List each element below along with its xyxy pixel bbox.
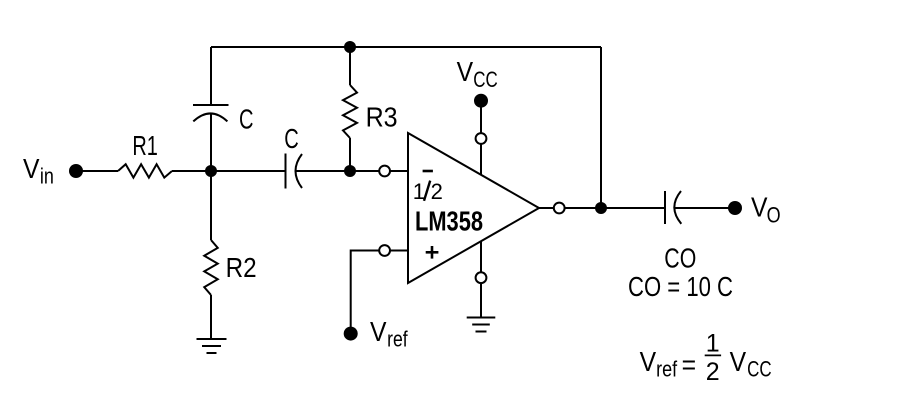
wire C1 to node A [210,114,212,241]
node D output junction dot [595,202,607,214]
wire top rail to R3 [349,47,351,85]
svg-text:C: C [284,123,299,154]
resistor R2 [204,240,218,295]
pin circle ground pin [476,272,487,283]
pin circle inverting input [379,166,390,177]
wire R3 to node B [349,138,351,171]
resistor R1 [118,164,172,177]
wire pin circle left then down to Vref [351,251,380,328]
wire R2 to ground [210,295,212,339]
pin circle output [554,203,565,214]
wire op-amp bottom edge to pin circle [480,241,482,272]
ground symbol below op-amp [467,318,496,332]
node Vref terminal dot [344,327,358,341]
wire feedback right vertical [600,47,602,208]
wire op-amp output to pin circle [539,207,554,209]
node A junction dot [205,165,217,177]
wire C2 to node B junction [296,170,350,172]
pin circle non-inverting input [379,245,390,256]
wire top rail [211,46,601,48]
svg-text:2: 2 [431,179,443,204]
pin circle VCC supply [476,133,487,144]
svg-text:R1: R1 [132,130,158,161]
svg-text:CO = 10 C: CO = 10 C [628,271,733,302]
svg-text:R3: R3 [366,102,398,133]
svg-text:CC: CC [473,67,498,92]
svg-text:C: C [239,103,254,134]
capacitor CO curved plate [674,191,681,224]
svg-text:V: V [751,192,768,223]
svg-text:V: V [457,56,474,87]
svg-text:1: 1 [706,329,720,357]
capacitor C1 straight plate [193,104,229,106]
svg-text:CO: CO [664,242,696,273]
ground symbol below R2 [197,339,227,353]
label Vo [751,192,781,228]
label Vref formula [640,329,772,386]
wire circle to op-amp minus input [390,170,408,172]
svg-text:=: = [682,349,697,380]
capacitor CO straight plate [664,191,666,224]
node C top junction dot [344,41,356,53]
wire pin circle to op-amp top edge [480,144,482,175]
op-amp U1 triangle [408,133,539,283]
label Vin [23,153,54,188]
svg-text:2: 2 [706,358,720,386]
svg-text:ref: ref [387,326,408,351]
label Vref node [370,316,408,351]
svg-text:LM358: LM358 [415,205,483,236]
wire VCC down to pin circle [480,106,482,133]
svg-text:V: V [730,346,747,377]
node B junction dot [344,165,356,177]
node Vin terminal dot [69,164,83,178]
capacitor C2 straight plate [285,154,287,189]
wire R1 to node A junction [172,170,285,172]
svg-text:R2: R2 [226,252,257,283]
svg-text:O: O [767,203,781,228]
wire Vin to R1 [82,170,118,172]
op-amp plus marker [426,246,439,259]
wire node B to inverting input circle [350,170,379,172]
wire top feedback left vertical (node A up to top rail) [210,47,212,105]
svg-text:V: V [23,153,40,184]
label 1/2 inside op-amp [413,179,443,204]
svg-text:ref: ref [656,356,678,381]
svg-text:V: V [370,316,387,347]
resistor R3 [343,85,357,138]
capacitor C2 curved plate [296,154,303,188]
wire output circle to node D [565,207,601,209]
wire CO to Vo terminal [675,207,729,209]
label VCC [457,56,498,92]
wire pin circle down to ground [480,283,482,318]
svg-text:in: in [40,163,54,188]
capacitor C1 curved plate [193,113,227,121]
svg-text:CC: CC [747,356,772,381]
op-amp minus marker [423,170,433,173]
node VCC terminal dot [474,94,488,108]
node Vo terminal dot [728,201,742,215]
wire op-amp plus input to pin circle [390,250,408,252]
wire node D to capacitor CO [601,207,665,209]
svg-text:V: V [640,346,657,377]
